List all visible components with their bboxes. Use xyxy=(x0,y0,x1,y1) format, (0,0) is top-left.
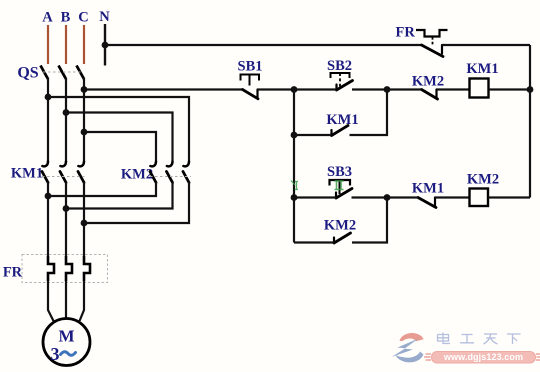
junction swap tap on phase B xyxy=(63,109,70,116)
thermal relay FR dashed box xyxy=(22,255,108,283)
wire KM2 aux rung left xyxy=(294,241,334,243)
svg-text:KM1: KM1 xyxy=(326,112,358,128)
contactor KM1 main contact pole 2 xyxy=(60,162,66,183)
wire FR to motor line 2 xyxy=(65,281,67,319)
wire KM1 aux rung right xyxy=(350,90,388,136)
thermal relay FR heater 3 xyxy=(84,256,90,281)
pushbutton SB2 stem dashed xyxy=(339,73,341,87)
pushbutton SB1 actuator xyxy=(241,75,260,86)
svg-text:FR: FR xyxy=(396,25,416,41)
contactor KM1 main contact pole 1 xyxy=(42,162,48,183)
contact KM1 aux NO xyxy=(332,126,349,136)
thermal contact FR stem dashed xyxy=(432,37,434,45)
junction swap tap on phase A xyxy=(45,94,52,101)
wire right rail vertical xyxy=(529,45,531,198)
wire FR contact to right rail xyxy=(442,44,530,46)
wire FR to motor line 3 xyxy=(80,281,85,321)
svg-text:KM1: KM1 xyxy=(412,181,444,197)
coil KM2 xyxy=(470,189,489,207)
wire node1 to SB2 xyxy=(294,88,337,90)
svg-text:A: A xyxy=(42,10,53,26)
wire SB1 to node1 xyxy=(258,88,295,90)
pushbutton SB1 NC contact xyxy=(243,90,259,99)
watermark char tian xyxy=(484,334,498,344)
contact KM2 NC interlock xyxy=(422,90,438,100)
contact KM2 aux NO xyxy=(334,233,351,243)
watermark green mark 2 xyxy=(335,181,344,190)
svg-text:N: N xyxy=(99,9,110,25)
junction motor line 1 xyxy=(45,193,52,200)
junction node after SB1 xyxy=(291,86,298,93)
junction node after SB3 xyxy=(384,194,391,201)
wire KM1 aux rung left xyxy=(294,134,332,136)
pushbutton SB3 NO contact xyxy=(336,189,352,199)
contactor KM2 main contact pole 2 xyxy=(167,162,173,183)
svg-text:KM2: KM2 xyxy=(324,218,356,234)
junction swap tap on phase C xyxy=(81,129,88,136)
thermal relay FR heater 2 xyxy=(66,256,72,281)
watermark char gong xyxy=(460,335,474,343)
wire node3 to KM1 NC xyxy=(387,196,418,198)
thermal contact FR NC xyxy=(422,45,444,57)
svg-text:KM1: KM1 xyxy=(466,61,498,77)
wire node2 to KM2 NC xyxy=(387,88,422,90)
svg-text:QS: QS xyxy=(17,65,38,82)
switch QS linkage dashed xyxy=(43,71,81,73)
contactor KM1 linkage dashed xyxy=(42,176,86,178)
wire phase C vertical below QS xyxy=(83,78,85,162)
svg-text:C: C xyxy=(78,10,88,26)
pushbutton SB2 NO contact xyxy=(337,81,353,91)
coil KM1 xyxy=(470,79,489,98)
thermal contact FR release bracket xyxy=(416,30,448,37)
logo blue bottom arc xyxy=(396,352,424,363)
wire phase B vertical below QS xyxy=(65,78,67,162)
junction motor line 3 xyxy=(81,220,88,227)
logo blue lightning xyxy=(392,339,419,358)
svg-text:FR: FR xyxy=(3,265,23,281)
wire motor lines down to FR xyxy=(47,196,49,256)
wire SB3 rung left xyxy=(294,196,336,198)
wire coil KM1 to right rail xyxy=(489,88,531,90)
junction node after SB2 xyxy=(384,86,391,93)
pushbutton SB3 stem xyxy=(339,180,341,194)
watermark band stripes right xyxy=(536,354,540,360)
svg-text:KM2: KM2 xyxy=(121,167,153,183)
svg-text:KM1: KM1 xyxy=(11,166,43,182)
wire phase A vertical below QS xyxy=(47,78,49,162)
wire KM2 pole3 output join xyxy=(84,182,189,223)
contactor KM1 main contact pole 3 xyxy=(78,162,84,183)
phase C supply wire xyxy=(83,25,85,64)
wire SB2 to node2 xyxy=(352,88,387,90)
svg-text:www.dgjs123.com: www.dgjs123.com xyxy=(443,352,523,362)
junction right rail xyxy=(527,86,534,93)
svg-text:SB1: SB1 xyxy=(238,59,263,75)
junction SB3 rung xyxy=(291,194,298,201)
switch QS pole 1 blade xyxy=(41,66,49,80)
svg-text:B: B xyxy=(61,10,71,26)
wire phase B to KM2 pole 2 xyxy=(66,113,173,162)
junction KM1 aux rung xyxy=(291,132,298,139)
logo red top arc xyxy=(400,333,424,341)
switch QS pole 3 blade xyxy=(77,66,85,80)
wire top rail N to FR xyxy=(105,44,422,46)
wire FR to motor line 1 xyxy=(48,281,54,321)
pushbutton SB2 actuator xyxy=(331,73,350,78)
svg-text:KM2: KM2 xyxy=(467,172,499,188)
wire KM1 pole outputs xyxy=(47,182,49,196)
wire KM2 pole1 output join xyxy=(48,182,156,196)
wire KM1 NC to coil KM2 xyxy=(435,196,470,198)
wire control feed to SB1 xyxy=(84,88,243,90)
junction control feed on phase C xyxy=(81,86,88,93)
wire phase A to KM2 pole 3 xyxy=(48,97,189,161)
contactor KM2 main contact pole 1 xyxy=(150,162,156,183)
svg-text:KM2: KM2 xyxy=(412,74,444,90)
wire KM2 NC to coil KM1 xyxy=(437,88,470,90)
svg-text:SB3: SB3 xyxy=(327,164,352,180)
contactor KM2 main contact pole 3 xyxy=(183,162,189,183)
motor tilde symbol xyxy=(61,352,76,356)
junction motor line 2 xyxy=(63,205,70,212)
thermal relay FR heater 1 xyxy=(48,256,54,281)
wire KM2 aux rung right xyxy=(352,198,387,243)
watermark char xia xyxy=(507,334,521,344)
watermark web band xyxy=(432,352,536,364)
wire phase C to KM2 pole 1 xyxy=(84,132,156,161)
svg-text:M: M xyxy=(58,327,74,346)
junction on N xyxy=(102,42,109,49)
watermark green mark 1 xyxy=(291,181,298,190)
wire SB3 to node3 xyxy=(352,196,388,198)
watermark band stripes left xyxy=(424,354,431,360)
wire coil KM2 to right rail xyxy=(488,196,530,198)
motor M circle xyxy=(43,319,90,366)
neutral N wire xyxy=(104,24,106,66)
wire left branch vertical xyxy=(293,90,295,243)
svg-text:SB2: SB2 xyxy=(327,58,352,74)
watermark char dian xyxy=(438,333,451,344)
svg-text:3: 3 xyxy=(51,344,60,364)
switch QS pole 2 blade xyxy=(59,66,67,80)
contact KM1 NC interlock xyxy=(418,198,436,208)
phase A supply wire xyxy=(47,25,49,64)
phase B supply wire xyxy=(65,25,67,64)
contactor KM2 linkage dashed xyxy=(150,176,191,178)
wire KM2 pole2 output join xyxy=(66,182,173,209)
pushbutton SB3 actuator xyxy=(330,180,351,186)
